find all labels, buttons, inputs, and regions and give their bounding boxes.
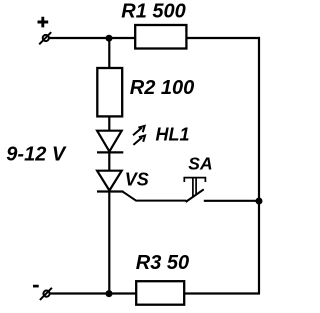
- resistor R1: [135, 25, 186, 49]
- actuator stem lines: [192, 178, 194, 197]
- wire VS gate diagonal: [123, 192, 187, 201]
- resistor R3: [136, 281, 184, 305]
- wire right rail: [258, 37, 260, 294]
- actuator T bar with end ticks: [184, 178, 205, 182]
- wire junction to R2: [108, 38, 110, 69]
- wire R3 to right rail: [184, 292, 260, 294]
- wire top from + terminal to R1: [49, 37, 136, 39]
- wire SA to right rail: [204, 200, 259, 202]
- svg-text:HL1: HL1: [156, 125, 190, 145]
- svg-text:R3 50: R3 50: [136, 252, 189, 274]
- resistor R2: [97, 68, 122, 116]
- wire VS cathode down to bottom: [108, 192, 110, 294]
- node junction bottom (cathode rail tap): [106, 290, 113, 297]
- svg-text:9-12 V: 9-12 V: [6, 144, 67, 166]
- movable contact diagonal: [186, 189, 204, 202]
- svg-text:R1 500: R1 500: [121, 1, 186, 23]
- switch SA push-button: [184, 178, 205, 202]
- node junction top (R2 tap): [106, 35, 113, 42]
- wire HL1 to VS: [108, 153, 110, 171]
- wire R2 to HL1: [108, 116, 110, 131]
- thyristor VS (triangle and cathode bar): [97, 171, 123, 192]
- LED arrow 2: [133, 136, 145, 145]
- terminal - (negative input): [33, 286, 52, 300]
- LED HL1 (diode triangle): [97, 131, 123, 153]
- LED arrow 1: [133, 126, 145, 135]
- svg-text:VS: VS: [125, 170, 149, 190]
- node junction right rail at SA: [256, 198, 263, 205]
- wire R1 to right rail: [186, 37, 259, 39]
- wire bottom from - terminal to R3: [50, 292, 137, 294]
- svg-text:SA: SA: [188, 153, 212, 173]
- svg-text:R2 100: R2 100: [130, 77, 195, 99]
- terminal + (positive input): [38, 17, 52, 45]
